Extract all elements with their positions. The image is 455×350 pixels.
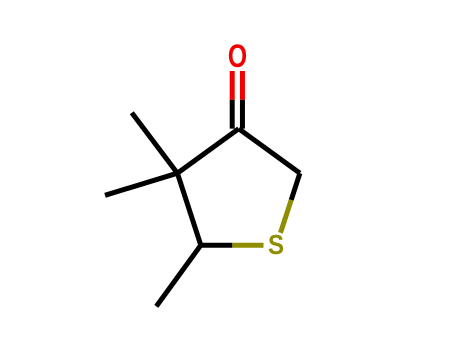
svg-text:O: O — [228, 39, 247, 75]
C3=O double bond line 2 red half — [240, 71, 245, 100]
wire: bond C3-C2 — [239, 129, 300, 174]
C3=O double bond line 1 red half — [230, 71, 235, 100]
bond C4-methyl (lower) — [105, 173, 177, 195]
bond S-C5 olive half — [232, 243, 263, 248]
bond C4-methyl (upper) — [132, 113, 178, 174]
bond S-C5 black half — [201, 243, 232, 248]
bond C5-C4 — [177, 173, 200, 245]
C3=O double bond line 2 black half — [240, 100, 245, 129]
bond C2-S lower (olive) half — [281, 200, 292, 233]
bond C5-methyl — [156, 245, 201, 306]
bond C2-S upper (black) half — [291, 173, 300, 200]
bond C4-C3 — [177, 129, 238, 174]
svg-text:S: S — [268, 228, 284, 260]
C3=O double bond line 1 black half — [230, 100, 235, 129]
